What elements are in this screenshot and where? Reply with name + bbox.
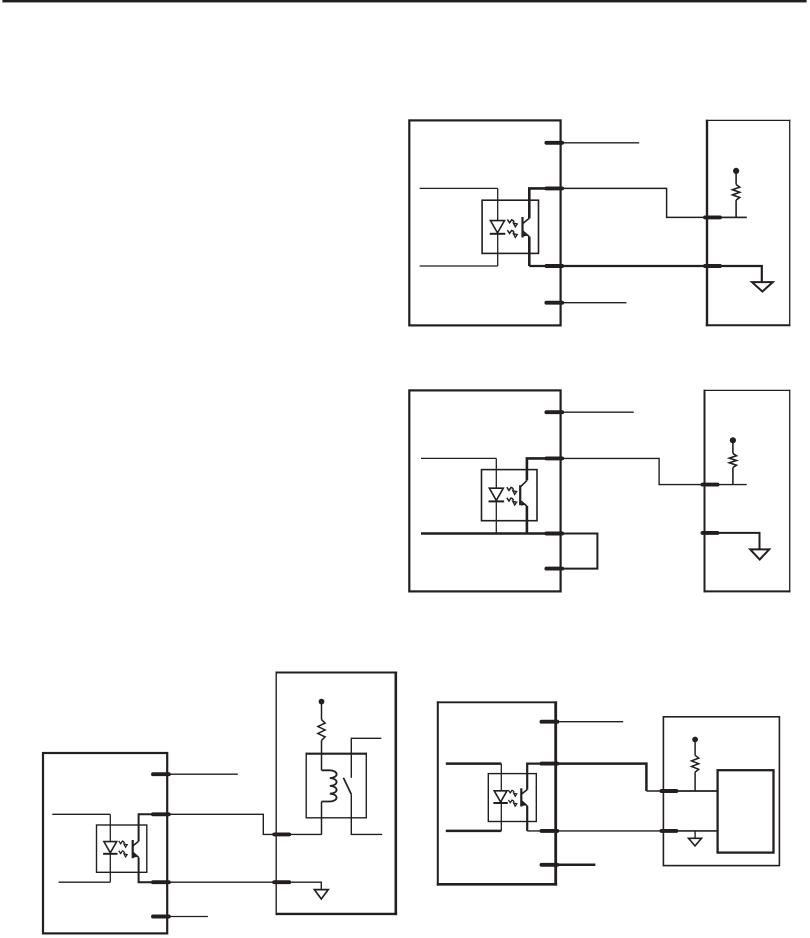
wire cathode stub circuit 4 bbox=[446, 830, 502, 833]
device box circuit 1 bbox=[409, 120, 560, 325]
wire LED vertical circuit 3 bbox=[109, 814, 111, 882]
pin 4 tick circuit 1 bbox=[546, 301, 562, 305]
LED diode of U2 bbox=[489, 488, 503, 500]
pin 4 tick circuit 2 bbox=[546, 567, 562, 571]
wire resistor row circuit 1 bbox=[707, 216, 747, 218]
wire pin3 long circuit 4 bbox=[527, 830, 717, 832]
wire pin3 ground net circuit 1 bbox=[529, 266, 762, 282]
pin 2 tick circuit 2 bbox=[546, 456, 562, 460]
wire anode stub circuit 4 bbox=[446, 762, 502, 765]
device box circuit 3 bbox=[43, 753, 167, 933]
wire cathode stub circuit 3 bbox=[59, 881, 111, 883]
pin 1 tick circuit 4 bbox=[542, 720, 558, 724]
pin 3 tick circuit 4 bbox=[542, 829, 558, 833]
pin 2 tick circuit 1 bbox=[546, 186, 562, 190]
supply dot circuit 3 bbox=[319, 699, 325, 705]
wire pin1 stub circuit 2 bbox=[562, 411, 634, 413]
phototransistor of U3 bbox=[132, 840, 134, 858]
pin 2 tick circuit 4 bbox=[542, 762, 558, 766]
external module box circuit 4 bbox=[663, 717, 779, 866]
light arrows of U2 bbox=[507, 487, 517, 494]
pull-up resistor circuit 1 bbox=[735, 173, 737, 185]
pin 3 tick circuit 3 bbox=[153, 880, 169, 884]
device box circuit 4 bbox=[437, 701, 439, 885]
external module box circuit 2 bbox=[704, 390, 706, 593]
wire pin2 to module circuit 1 bbox=[561, 188, 747, 217]
phototransistor of U4 bbox=[520, 788, 522, 806]
collector wire of U1 bbox=[529, 188, 561, 218]
collector wire of U4 bbox=[527, 764, 556, 790]
module pin tick A circuit 3 bbox=[274, 832, 289, 836]
wire cathode stub circuit 1 bbox=[420, 265, 498, 267]
pin 1 tick circuit 3 bbox=[153, 772, 169, 776]
LED diode of U3 bbox=[104, 842, 117, 853]
supply dot circuit 4 bbox=[692, 737, 698, 743]
wire pin2 to relay coil circuit 3 bbox=[168, 814, 322, 834]
wire anode stub circuit 2 bbox=[421, 457, 496, 459]
LED diode of U4 bbox=[494, 791, 507, 802]
pin 3 tick circuit 2 bbox=[546, 532, 562, 536]
optocoupler body U2 bbox=[482, 470, 538, 521]
relay switch circuit 3 bbox=[351, 738, 381, 778]
pull-up resistor circuit 4 bbox=[694, 742, 696, 756]
wire module row B circuit 4 bbox=[663, 830, 717, 832]
light arrows of U1 bbox=[507, 220, 517, 227]
pin 3 tick circuit 1 bbox=[546, 264, 562, 268]
phototransistor of U1 bbox=[521, 217, 523, 238]
module pin tick B circuit 3 bbox=[274, 880, 289, 884]
external relay box circuit 3 bbox=[275, 672, 277, 916]
wire pin1 stub circuit 4 bbox=[557, 721, 623, 723]
wire LED vertical circuit 1 bbox=[497, 188, 499, 266]
emitter wire of U3 bbox=[139, 857, 168, 882]
module pin tick B circuit 4 bbox=[661, 829, 676, 833]
module pin tick B circuit 1 bbox=[705, 264, 720, 268]
device box circuit 2 bbox=[409, 390, 560, 591]
emitter wire of U1 bbox=[528, 237, 531, 266]
relay coil lead down circuit 3 bbox=[321, 802, 323, 835]
optocoupler body U3 bbox=[97, 825, 147, 872]
emitter wire of U4 bbox=[526, 806, 528, 831]
wire ground net circuit 2 bbox=[705, 533, 760, 550]
wire pin2 to module circuit 2 bbox=[561, 458, 747, 484]
wire module row A circuit 4 bbox=[663, 790, 717, 792]
module pin tick A circuit 4 bbox=[661, 789, 676, 793]
module pin tick A circuit 1 bbox=[705, 215, 720, 219]
optocoupler body U4 bbox=[488, 774, 536, 822]
wire pin1 stub circuit 3 bbox=[169, 773, 238, 775]
page header rule bbox=[2, 0, 806, 2]
wire pin3-pin4 loop circuit 2 bbox=[561, 534, 597, 569]
ground symbol circuit 3 bbox=[314, 890, 328, 899]
wire pin4 stub circuit 1 bbox=[562, 302, 626, 304]
pin 4 tick circuit 4 bbox=[542, 863, 558, 867]
wire anode stub circuit 3 bbox=[52, 813, 110, 815]
supply dot circuit 1 bbox=[733, 168, 739, 174]
light arrows of U4 bbox=[508, 790, 516, 796]
wire anode stub circuit 1 bbox=[420, 187, 498, 189]
coil resistor circuit 3 bbox=[321, 704, 323, 720]
pull-up resistor circuit 2 bbox=[732, 442, 734, 454]
relay coil circuit 3 bbox=[322, 770, 337, 801]
optocoupler body U1 bbox=[482, 200, 538, 253]
ground stub circuit 4 bbox=[694, 831, 696, 838]
load box circuit 4 bbox=[718, 770, 774, 852]
pin 1 tick circuit 1 bbox=[546, 141, 562, 145]
ground symbol circuit 4 bbox=[689, 838, 702, 846]
LED diode of U1 bbox=[491, 221, 505, 233]
relay body box circuit 3 bbox=[305, 753, 307, 819]
phototransistor of U2 bbox=[519, 485, 521, 505]
wire pin4 stub circuit 4 bbox=[556, 864, 595, 867]
external module box circuit 1 bbox=[706, 120, 708, 326]
wire pin2 to module circuit 4 bbox=[556, 764, 646, 791]
wire pin4 stub circuit 3 bbox=[169, 916, 208, 918]
wire pin1 stub circuit 1 bbox=[562, 142, 639, 144]
wire cathode emitter bus circuit 2 bbox=[421, 532, 561, 534]
wire LED vertical circuit 2 bbox=[495, 458, 497, 533]
emitter wire of U2 bbox=[526, 506, 529, 534]
ground symbol circuit 1 bbox=[752, 282, 773, 291]
pin 2 tick circuit 3 bbox=[153, 812, 169, 816]
pin 4 tick circuit 3 bbox=[153, 915, 169, 919]
ground symbol circuit 2 bbox=[750, 549, 769, 559]
light arrows of U3 bbox=[119, 841, 127, 847]
wire LED vertical circuit 4 bbox=[500, 764, 502, 831]
pin 1 tick circuit 2 bbox=[546, 410, 562, 414]
wire pin3 ground net circuit 3 bbox=[168, 882, 322, 889]
collector wire of U2 bbox=[527, 458, 561, 480]
module pin tick B circuit 2 bbox=[703, 531, 718, 535]
collector wire of U3 bbox=[139, 814, 168, 841]
module pin tick A circuit 2 bbox=[703, 483, 718, 487]
supply dot circuit 2 bbox=[730, 437, 736, 443]
